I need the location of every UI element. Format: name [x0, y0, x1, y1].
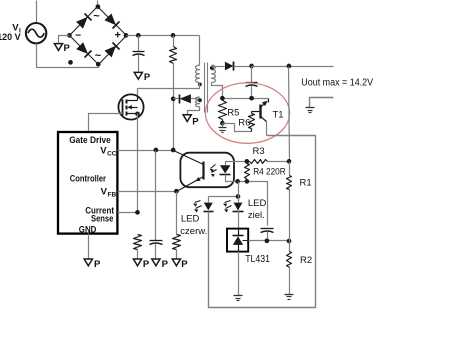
node bridge plus — [124, 33, 129, 38]
label R2 — [300, 255, 312, 266]
wire LED anode bus — [209, 196, 239, 198]
ground P (GND) — [84, 259, 101, 270]
earth ground (R2) — [285, 295, 294, 300]
ground P (C_vcc) — [152, 259, 169, 270]
wire output to R3 node — [289, 67, 290, 162]
wire bridge minus to ground — [59, 36, 70, 44]
node bridge minus — [67, 33, 72, 38]
wire primary bottom to drain — [138, 83, 200, 97]
svg-text:P: P — [181, 259, 188, 270]
node Vfb — [174, 189, 179, 194]
node Vcc cap — [154, 148, 159, 153]
transistor T1 — [252, 99, 269, 136]
node bus Rstartup — [171, 33, 176, 38]
resistor R2 — [287, 242, 292, 295]
label plus — [114, 30, 120, 42]
node REF cap — [265, 238, 270, 243]
svg-text:LED: LED — [181, 214, 200, 225]
node REF divider — [287, 239, 292, 244]
wire Vfb line — [118, 191, 177, 193]
bridge diode D4 (bottom to plus) — [105, 43, 120, 58]
wire GND pin — [88, 234, 90, 260]
svg-text:CC: CC — [107, 150, 117, 157]
svg-text:P: P — [144, 72, 151, 83]
wire R5 to earth — [222, 124, 224, 128]
node opto cathode / R4 — [245, 179, 250, 184]
label R4 220R — [253, 167, 286, 178]
svg-text:GND: GND — [79, 224, 97, 234]
label R6 — [238, 117, 250, 128]
svg-text:P: P — [94, 259, 101, 270]
label V_I — [0, 22, 21, 43]
opto phototransistor — [174, 151, 204, 192]
capacitor C_vcc — [150, 151, 163, 260]
earth ground (R5) — [219, 128, 227, 133]
AC source V_I — [26, 23, 46, 43]
wire CS line — [118, 212, 138, 214]
wire bridge top stub — [97, 1, 99, 7]
wire source down — [137, 114, 139, 213]
label ~ bottom — [95, 50, 102, 62]
controller U1 box — [58, 132, 117, 234]
svg-text:+: + — [114, 30, 120, 42]
ground P (R_fb) — [172, 259, 188, 270]
svg-text:P: P — [64, 43, 71, 54]
wire AC bottom to bridge — [37, 44, 99, 68]
wire REF line — [249, 240, 290, 242]
resistor R5 — [219, 101, 227, 124]
node R3 left — [245, 159, 250, 164]
node bridge bottom — [96, 62, 101, 67]
label GND — [79, 224, 97, 234]
annotation red ellipse — [205, 83, 289, 143]
resistor R3 — [247, 160, 290, 164]
node D_out cathode — [249, 64, 254, 69]
node R5 bottom — [220, 121, 225, 126]
wire AC top lead — [36, 1, 38, 24]
TL431 symbol — [233, 229, 249, 252]
wire opto cathode down — [238, 182, 240, 203]
svg-text:P: P — [162, 259, 169, 270]
opto light arrows — [210, 165, 217, 178]
node return C_out — [249, 96, 254, 101]
ground P (bridge) — [54, 43, 70, 54]
svg-text:TL431: TL431 — [245, 254, 270, 265]
wire aux bottom to ground — [188, 107, 200, 115]
svg-text:LED: LED — [248, 198, 267, 209]
bridge diode D2 (top to plus) — [104, 14, 119, 29]
ground P (aux) — [183, 115, 199, 128]
bridge diode D3 (minus to bottom) — [76, 42, 91, 57]
label minus — [75, 31, 81, 42]
node R3 right — [287, 159, 292, 164]
node CS — [135, 210, 140, 215]
capacitor C_in — [133, 36, 145, 73]
wire DC bus rail — [127, 35, 200, 37]
svg-text:R1: R1 — [300, 177, 312, 188]
polarity dot primary — [198, 83, 202, 87]
bridge diode D1 (minus to top) — [76, 14, 91, 29]
label Vfb pin — [101, 187, 117, 199]
label Controller — [70, 173, 107, 183]
resistor R4 — [245, 164, 250, 182]
svg-text:−: − — [75, 31, 81, 42]
node output R1 branch — [287, 64, 292, 69]
node bus Cin — [136, 33, 141, 38]
resistor R1 — [287, 162, 292, 242]
resistor R_startup — [170, 36, 177, 151]
label LED czerw — [180, 214, 207, 237]
capacitor C_out — [246, 67, 258, 99]
node Vcc opto — [171, 148, 176, 153]
svg-text:Uout max = 14.2V: Uout max = 14.2V — [301, 77, 373, 88]
label Vcc pin — [100, 145, 117, 157]
svg-text:Controller: Controller — [70, 173, 107, 183]
LED green — [223, 201, 244, 213]
wire green LED to TL431 — [238, 210, 240, 229]
wire gate — [89, 114, 123, 133]
wire secondary return node line — [223, 98, 269, 100]
node return R5 — [220, 96, 225, 101]
opto LED — [220, 162, 268, 226]
label LED ziel — [248, 198, 267, 221]
resistor R_fb — [173, 192, 181, 260]
label R5 — [227, 108, 239, 119]
transformer T (aux winding) — [195, 97, 199, 107]
ground P (R_cs) — [133, 259, 150, 270]
MOSFET Q1 — [118, 94, 143, 119]
label TL431 — [245, 254, 270, 265]
label R1 — [300, 177, 312, 188]
earth ground (TL431) — [234, 296, 243, 301]
stray junction dot — [68, 60, 73, 65]
wire secondary to diode — [212, 66, 225, 68]
wire output rail — [252, 66, 334, 68]
svg-text:120 V: 120 V — [0, 32, 21, 43]
svg-text:ziel.: ziel. — [248, 210, 265, 221]
diode D_out — [225, 62, 252, 71]
svg-text:R2: R2 — [300, 255, 312, 266]
svg-text:R6: R6 — [238, 117, 250, 128]
svg-text:czerw.: czerw. — [180, 226, 207, 237]
LED red — [193, 197, 214, 213]
node opto cathode / green LED — [235, 179, 240, 184]
wire Uout ground lead — [310, 98, 334, 108]
label Uout — [301, 77, 373, 88]
ground P (C_in) — [134, 72, 151, 83]
wire Vcc line — [118, 150, 174, 152]
svg-text:~: ~ — [93, 11, 100, 23]
diode D_aux — [174, 94, 200, 103]
resistor R6 — [249, 112, 255, 132]
svg-text:T1: T1 — [273, 110, 284, 121]
wire TL431 anode to earth — [238, 252, 240, 296]
node R_startup / D_aux — [171, 96, 176, 101]
svg-text:P: P — [143, 259, 150, 270]
polarity dot aux — [198, 98, 202, 102]
label R3 — [253, 146, 265, 157]
capacitor C_comp — [261, 229, 274, 239]
optocoupler U2 body — [180, 153, 234, 188]
TL431 U3 box — [227, 229, 248, 252]
svg-text:Gate Drive: Gate Drive — [69, 135, 111, 145]
bridge rectifier frame — [70, 7, 127, 65]
resistor R_cs — [134, 235, 142, 260]
wire R5 to R6 route — [223, 124, 252, 132]
svg-text:P: P — [192, 117, 199, 128]
node green LED anode — [236, 194, 241, 199]
svg-text:R4 220R: R4 220R — [253, 167, 286, 178]
svg-text:~: ~ — [95, 50, 102, 62]
label Current Sense — [85, 205, 114, 223]
wire bus down to primary — [199, 36, 201, 66]
label ~ top — [93, 11, 100, 23]
transformer core — [205, 63, 208, 113]
svg-text:R3: R3 — [253, 146, 265, 157]
node bridge top — [96, 4, 101, 9]
wire red LED cathode loop — [209, 136, 316, 308]
wire secondary bottom return — [212, 83, 223, 99]
polarity dot secondary — [210, 66, 214, 70]
earth ground (Uout) — [306, 108, 315, 113]
transformer T (secondary winding) — [212, 65, 216, 82]
label T1 — [273, 110, 284, 121]
svg-text:FB: FB — [108, 192, 117, 199]
transformer T (primary winding) — [195, 65, 199, 82]
svg-text:Sense: Sense — [91, 214, 113, 224]
label Gate Drive — [69, 135, 111, 145]
